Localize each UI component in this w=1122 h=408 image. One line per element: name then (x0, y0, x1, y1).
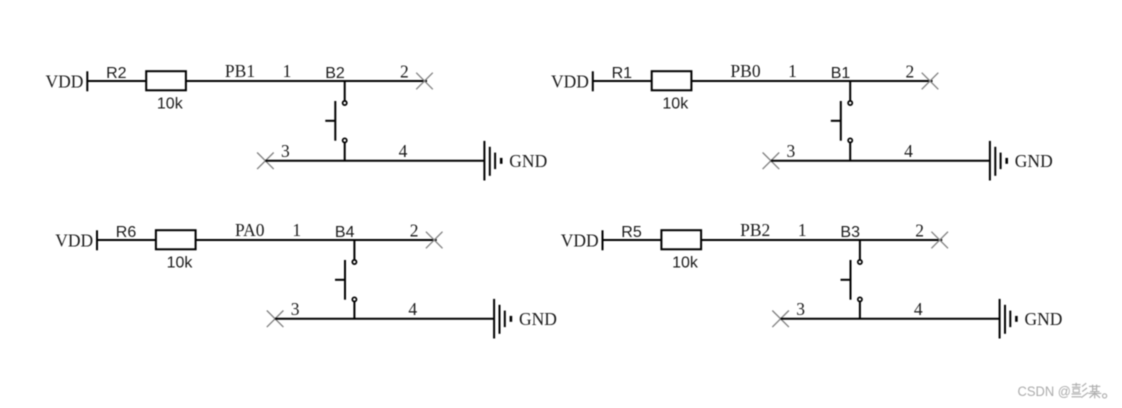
svg-text:10k: 10k (662, 95, 689, 112)
svg-text:10k: 10k (672, 254, 699, 271)
svg-text:1: 1 (788, 61, 797, 81)
svg-text:2: 2 (906, 62, 915, 82)
svg-text:2: 2 (400, 62, 409, 82)
svg-text:PB0: PB0 (730, 61, 760, 81)
svg-text:4: 4 (914, 299, 923, 319)
svg-text:10k: 10k (157, 95, 184, 112)
svg-text:4: 4 (408, 299, 417, 319)
svg-text:GND: GND (1025, 309, 1063, 329)
svg-text:1: 1 (798, 220, 807, 240)
svg-text:VDD: VDD (561, 231, 599, 251)
svg-text:VDD: VDD (46, 72, 84, 92)
svg-text:VDD: VDD (55, 231, 93, 251)
svg-text:4: 4 (904, 141, 913, 161)
svg-text:B1: B1 (831, 65, 851, 82)
svg-text:1: 1 (283, 61, 292, 81)
svg-text:CSDN @: CSDN @ (1018, 384, 1071, 400)
svg-text:VDD: VDD (551, 72, 589, 92)
svg-text:2: 2 (915, 221, 924, 241)
svg-text:3: 3 (291, 299, 300, 319)
svg-text:GND: GND (519, 309, 557, 329)
svg-text:R1: R1 (612, 65, 633, 82)
svg-text:GND: GND (509, 151, 547, 171)
svg-text:4: 4 (399, 141, 408, 161)
svg-text:2: 2 (410, 221, 419, 241)
svg-text:B2: B2 (325, 65, 345, 82)
svg-text:B4: B4 (335, 224, 355, 241)
svg-text:PA0: PA0 (235, 220, 265, 240)
svg-text:R2: R2 (106, 65, 127, 82)
svg-text:PB1: PB1 (225, 61, 255, 81)
svg-text:3: 3 (281, 141, 290, 161)
svg-text:10k: 10k (167, 254, 194, 271)
svg-text:PB2: PB2 (740, 220, 770, 240)
svg-text:3: 3 (796, 299, 805, 319)
svg-text:1: 1 (292, 220, 301, 240)
svg-text:GND: GND (1015, 151, 1053, 171)
svg-text:B3: B3 (840, 224, 860, 241)
svg-text:3: 3 (787, 141, 796, 161)
svg-text:R5: R5 (621, 224, 642, 241)
svg-text:R6: R6 (116, 224, 137, 241)
